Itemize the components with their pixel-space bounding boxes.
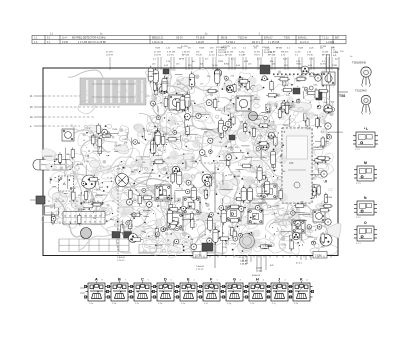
transistor TS6189X/B symbol bbox=[361, 67, 371, 87]
resistor R44 bbox=[313, 186, 316, 198]
trimmer/pad P5 bbox=[184, 114, 190, 120]
resistor R68 bbox=[98, 137, 101, 149]
svg-text:B.Rd-11: B.Rd-11 bbox=[298, 37, 307, 40]
trimmer/pad P38 bbox=[205, 181, 210, 186]
resistor R78 bbox=[249, 190, 252, 202]
bottom view of can D bbox=[153, 277, 177, 304]
resistor R10 bbox=[316, 117, 319, 129]
svg-text:A: A bbox=[95, 277, 98, 281]
resistor R15 bbox=[272, 157, 275, 169]
resistor R16 bbox=[259, 245, 271, 248]
resistor R62 bbox=[239, 76, 242, 88]
trimmer/pad P30 bbox=[219, 206, 224, 211]
connector M bbox=[354, 161, 377, 185]
TS6 node label on board edge bbox=[338, 92, 348, 98]
tick scale row bbox=[48, 201, 100, 203]
svg-text:TS28: TS28 bbox=[155, 48, 161, 50]
capacitor C19 bbox=[265, 179, 270, 197]
capacitor C9 bbox=[177, 169, 182, 187]
trimmer/pad P37 bbox=[296, 99, 300, 103]
transistor T4 on board bbox=[249, 112, 258, 121]
trimmer/pad P8 bbox=[127, 199, 133, 205]
svg-text:5: 5 bbox=[148, 280, 149, 282]
resistor R43 bbox=[228, 219, 240, 222]
transistor T12 on board bbox=[172, 166, 180, 174]
component value label and leader lines above board at x=285 bbox=[281, 51, 288, 70]
bottom view of can B bbox=[107, 277, 131, 304]
small modules at left board edge bbox=[30, 196, 59, 215]
resistor R75 bbox=[84, 189, 87, 201]
svg-text:55: 55 bbox=[89, 222, 91, 224]
svg-text:8: 8 bbox=[102, 280, 103, 282]
svg-text:0.05 AF: 0.05 AF bbox=[268, 50, 276, 53]
transistor T10 on board bbox=[324, 105, 332, 113]
vertical wire pair to transistor TS6 bbox=[327, 54, 330, 105]
component value label and leader lines above board at x=110 bbox=[106, 51, 113, 70]
capacitor C4 bbox=[167, 208, 172, 226]
trimmer/pad P18 bbox=[268, 134, 273, 139]
resistor R70 bbox=[235, 197, 247, 200]
svg-text:1x 25: 1x 25 bbox=[295, 51, 301, 53]
svg-text:TS26: TS26 bbox=[226, 87, 232, 89]
trimmer/pad P45 bbox=[151, 101, 156, 106]
capacitor C21 bbox=[155, 129, 160, 147]
trimmer/pad P34 bbox=[222, 125, 228, 131]
component value label and leader lines above board at x=200 bbox=[196, 51, 203, 70]
capacitor C2 bbox=[247, 185, 252, 203]
capacitor C17 bbox=[241, 185, 246, 203]
svg-text:B07: B07 bbox=[335, 37, 340, 40]
svg-text:TS30: TS30 bbox=[284, 37, 290, 40]
component value label and leader lines above board at x=258 bbox=[254, 51, 261, 70]
resistor R9 bbox=[246, 79, 249, 91]
svg-text:0.1AF: 0.1AF bbox=[70, 187, 76, 190]
dark modules bottom-left bbox=[112, 232, 132, 239]
extra components upper band bbox=[154, 73, 334, 133]
svg-text:0.01 AF: 0.01 AF bbox=[240, 260, 248, 263]
svg-text:2.2kΩ: 2.2kΩ bbox=[256, 268, 262, 270]
lower label row above board bbox=[152, 48, 339, 67]
capacitor C12 bbox=[257, 165, 262, 183]
resistor R53 bbox=[186, 125, 189, 137]
printed circuit board outline bbox=[43, 68, 338, 256]
svg-text:BF18: BF18 bbox=[179, 59, 185, 61]
resistor R42 bbox=[220, 127, 223, 139]
trimmer/pad P21 bbox=[199, 150, 205, 156]
component value label and leader lines above board at x=158 bbox=[154, 51, 161, 70]
capacitor C20 bbox=[148, 66, 153, 84]
trimmer/pad P17 bbox=[207, 238, 212, 243]
trimmer/pad P41 bbox=[181, 206, 186, 211]
resistor R7 bbox=[327, 72, 330, 84]
resistor R67 bbox=[233, 229, 236, 241]
label VH1 row bbox=[78, 195, 103, 197]
shield module dashed outline redraw bbox=[282, 128, 312, 203]
dark module M3 bbox=[316, 92, 322, 100]
svg-text:5%: 5% bbox=[188, 48, 191, 50]
resistor R13 bbox=[159, 185, 162, 197]
svg-text:1 4 e: 1 4 e bbox=[181, 303, 185, 305]
trimmer/pad P11 bbox=[295, 221, 301, 227]
trimmer/pad P25 bbox=[314, 74, 318, 78]
bottom edge pin stubs bbox=[191, 256, 331, 258]
IF transformer can K bbox=[292, 220, 305, 233]
svg-text:151-1: 151-1 bbox=[218, 55, 224, 57]
resistor R41 bbox=[214, 98, 217, 110]
svg-text:25: 25 bbox=[64, 216, 66, 218]
trimmer/pad P50 bbox=[186, 180, 191, 185]
dark module M6 bbox=[163, 69, 169, 74]
svg-text:O: O bbox=[364, 221, 367, 225]
resistor R47 bbox=[229, 205, 241, 208]
svg-text:BF180: BF180 bbox=[326, 197, 333, 199]
copper ground plane region bbox=[80, 78, 146, 105]
svg-text:5%: 5% bbox=[254, 48, 257, 50]
pad strip along top edge bbox=[273, 74, 335, 76]
IF transformer can E bbox=[248, 209, 263, 224]
trimmer/pad P9 bbox=[156, 116, 160, 120]
svg-text:9 215: 9 215 bbox=[62, 41, 69, 44]
svg-text:0.1 AF: 0.1 AF bbox=[239, 53, 246, 56]
trimmer/pad P4 bbox=[156, 232, 160, 236]
trimmer/pad P29 bbox=[255, 205, 260, 210]
svg-text:D: D bbox=[231, 212, 234, 217]
transistor T2 on board bbox=[116, 174, 129, 187]
resistor R38 bbox=[218, 237, 230, 240]
resistor R17 bbox=[290, 239, 293, 251]
svg-text:125: 125 bbox=[89, 216, 92, 218]
resistor R69 bbox=[88, 178, 100, 181]
svg-text:TS28: TS28 bbox=[199, 48, 205, 50]
resistor R57 bbox=[294, 204, 306, 207]
trimmer/pad P51 bbox=[328, 135, 332, 139]
transistor T13 on board bbox=[292, 232, 300, 240]
trimmer/pad P31 bbox=[225, 76, 229, 80]
svg-text:TS30: TS30 bbox=[296, 64, 302, 66]
resistor R58 bbox=[97, 123, 100, 135]
resistor R28 bbox=[71, 148, 74, 160]
resistor R80 bbox=[257, 142, 269, 145]
bottom view of can A bbox=[84, 277, 108, 304]
svg-text:5: 5 bbox=[217, 280, 218, 282]
below-board leader group 2 bbox=[240, 256, 274, 273]
dark module M2 bbox=[293, 88, 300, 94]
resistor R20 bbox=[318, 209, 330, 212]
shielded can at (62,129) bbox=[62, 129, 74, 141]
capacitor C22 bbox=[221, 207, 226, 225]
svg-text:1 4 c: 1 4 c bbox=[135, 303, 139, 305]
svg-text:4: 4 bbox=[263, 280, 264, 282]
legend column at x=331 bbox=[331, 47, 339, 57]
trimmer/pad P24 bbox=[233, 237, 238, 242]
svg-text:B.Rd-08: B.Rd-08 bbox=[252, 275, 261, 277]
resistor R79 bbox=[129, 219, 132, 231]
resistor R52 bbox=[162, 134, 165, 146]
svg-text:1k 1W: 1k 1W bbox=[322, 51, 329, 53]
resistor R83 bbox=[72, 190, 75, 202]
svg-text:G: G bbox=[233, 277, 236, 281]
title block tick labels bbox=[50, 33, 261, 35]
svg-text:H: H bbox=[189, 204, 192, 209]
legend column at x=216 bbox=[216, 47, 227, 57]
svg-text:L74 78: L74 78 bbox=[154, 54, 161, 56]
IF transformer can H bbox=[183, 197, 200, 214]
resistor R31 bbox=[130, 213, 142, 216]
resistor R35 bbox=[92, 134, 95, 146]
svg-text:T526: T526 bbox=[112, 129, 118, 131]
trimmer/pad P36 bbox=[132, 213, 136, 217]
edge connector ladder grid B bbox=[139, 245, 216, 253]
svg-text:BF 185: BF 185 bbox=[322, 54, 330, 56]
resistor R82 bbox=[58, 152, 61, 164]
svg-text:4x 2 1-0: 4x 2 1-0 bbox=[300, 41, 309, 44]
resistor R72 bbox=[51, 213, 54, 225]
resistor R81 bbox=[285, 103, 288, 115]
svg-text:5-25p: 5-25p bbox=[215, 110, 221, 112]
transistor TS1234/5 symbol bbox=[361, 95, 371, 114]
svg-text:B5 FREQ.DETECTOR 4.5 MHz: B5 FREQ.DETECTOR 4.5 MHz bbox=[72, 37, 106, 40]
transistor T3 on board bbox=[202, 174, 212, 184]
resistor R73 bbox=[280, 106, 292, 109]
resistor R74 bbox=[238, 80, 250, 83]
trimmer/pad P1 bbox=[262, 76, 267, 81]
svg-text:5-25p: 5-25p bbox=[239, 51, 245, 53]
resistor R55 bbox=[129, 188, 132, 200]
resistor R77 bbox=[91, 203, 103, 206]
svg-text:5.2 Rd 1: 5.2 Rd 1 bbox=[226, 41, 236, 44]
svg-text:T526: T526 bbox=[193, 209, 199, 211]
capacitor C14 bbox=[219, 118, 224, 136]
svg-text:7: 7 bbox=[125, 280, 126, 282]
svg-text:TS6189X/B: TS6189X/B bbox=[352, 61, 366, 65]
component value label and leader lines above board at x=186 bbox=[182, 51, 192, 70]
component value label and leader lines above board at x=171 bbox=[167, 51, 176, 70]
svg-text:TS 28 B: TS 28 B bbox=[196, 37, 205, 40]
svg-text:TS 30: TS 30 bbox=[307, 54, 314, 56]
svg-text:0.1 5%: 0.1 5% bbox=[167, 54, 174, 56]
IF transformer can F bbox=[167, 213, 183, 229]
trimmer/pad P43 bbox=[209, 150, 213, 154]
trimmer/pad P14 bbox=[174, 239, 179, 244]
shielded can at (236,96) bbox=[236, 96, 251, 111]
bottom row left stub wires bbox=[80, 288, 85, 293]
trimmer/pad P26 bbox=[206, 100, 212, 106]
svg-text:G5 14: G5 14 bbox=[176, 37, 183, 40]
svg-text:1 4 d: 1 4 d bbox=[158, 303, 162, 305]
svg-text:2x 178: 2x 178 bbox=[106, 51, 113, 53]
resistor R45 bbox=[313, 159, 325, 162]
resistor R59 bbox=[156, 130, 159, 142]
resistor R61 bbox=[191, 218, 194, 230]
svg-text:BEELD 21: BEELD 21 bbox=[152, 37, 164, 40]
resistor R29 bbox=[121, 223, 124, 235]
svg-text:T.Rd-34: T.Rd-34 bbox=[117, 257, 125, 259]
resistor R71 bbox=[131, 238, 143, 241]
svg-text:6: 6 bbox=[307, 280, 308, 282]
connector L bbox=[353, 127, 378, 151]
svg-text:B5 06: B5 06 bbox=[221, 37, 228, 40]
dark module M1 bbox=[260, 65, 270, 74]
resistor R33 bbox=[227, 156, 230, 168]
resistor R39 bbox=[266, 94, 278, 97]
svg-text:1 4 g: 1 4 g bbox=[227, 303, 231, 305]
lead speck marks bbox=[54, 76, 334, 253]
svg-text:5: 5 bbox=[64, 222, 65, 224]
resistor R2 bbox=[324, 193, 327, 205]
svg-text:25: 25 bbox=[74, 222, 76, 224]
svg-text:1 4 h: 1 4 h bbox=[250, 303, 254, 305]
trimmer/pad P10 bbox=[256, 147, 260, 151]
capacitor C3 bbox=[153, 67, 158, 85]
title block row 2 text bbox=[34, 41, 335, 44]
resistor R4 bbox=[142, 196, 154, 199]
shield module dashed outline bbox=[282, 128, 312, 203]
svg-text:D: D bbox=[164, 277, 167, 281]
svg-text:TS 27: TS 27 bbox=[254, 54, 261, 56]
resistor R85 bbox=[168, 208, 180, 211]
dark module M4 bbox=[202, 243, 213, 251]
svg-text:J: J bbox=[278, 277, 280, 281]
capacitor C11 bbox=[151, 138, 156, 156]
component value label and leader lines above board at x=229 bbox=[225, 51, 235, 70]
component value label and leader lines above board at x=299 bbox=[295, 51, 302, 70]
trimmer/pad P3 bbox=[208, 138, 213, 143]
resistor R3 bbox=[78, 213, 81, 225]
svg-text:1k 5%: 1k 5% bbox=[254, 51, 260, 53]
svg-text:M: M bbox=[364, 161, 367, 165]
trimmer/pad P27 bbox=[239, 206, 244, 211]
svg-text:1 4 f: 1 4 f bbox=[204, 303, 208, 305]
left leader line 20 at y=107 bbox=[30, 107, 120, 109]
svg-text:BF180: BF180 bbox=[77, 164, 84, 166]
svg-text:BF180: BF180 bbox=[267, 136, 274, 138]
trimmer/pad P6 bbox=[226, 154, 232, 160]
trimmer/pad P13 bbox=[161, 227, 166, 232]
svg-text:39k 5%: 39k 5% bbox=[281, 51, 288, 53]
below-board leader group 1 bbox=[196, 256, 215, 272]
svg-text:2: 2 bbox=[285, 280, 286, 282]
svg-text:BF 184: BF 184 bbox=[268, 54, 276, 56]
resistor R14 bbox=[244, 122, 247, 134]
resistor R65 bbox=[208, 176, 211, 188]
below-board label bottom-left bbox=[117, 257, 125, 262]
svg-text:TS28: TS28 bbox=[298, 48, 304, 50]
svg-text:L74 78: L74 78 bbox=[106, 54, 113, 56]
IF transformer can J bbox=[262, 184, 277, 199]
shielded can at (322,72) bbox=[322, 72, 335, 85]
resistor R34 bbox=[317, 89, 329, 92]
capacitor C6 bbox=[208, 215, 213, 233]
svg-text:BF180: BF180 bbox=[276, 48, 283, 50]
svg-text:1 4 b: 1 4 b bbox=[112, 303, 116, 305]
resistor R19 bbox=[164, 96, 167, 108]
resistor R11 bbox=[295, 77, 307, 80]
resistor R48 bbox=[281, 88, 293, 91]
capacitor C15 bbox=[162, 76, 167, 94]
svg-text:1k 5%: 1k 5% bbox=[212, 65, 218, 67]
boxed label CBL right bbox=[313, 252, 327, 259]
component halo shading bbox=[68, 72, 333, 248]
transistor T7 on board bbox=[81, 228, 92, 239]
trimmer/pad P52 bbox=[191, 244, 197, 250]
resistor R6 bbox=[171, 172, 174, 184]
trimmer/pad P33 bbox=[146, 202, 152, 208]
resistor R64 bbox=[138, 194, 141, 206]
resistor R25 bbox=[286, 100, 289, 112]
trimmer/pad P2 bbox=[51, 216, 56, 221]
svg-text:K: K bbox=[300, 277, 303, 281]
svg-text:65: 65 bbox=[94, 222, 96, 224]
copper traces bbox=[42, 68, 341, 258]
svg-text:2: 2 bbox=[194, 280, 195, 282]
resistor R49 bbox=[241, 164, 253, 167]
IF transformer can D bbox=[226, 206, 241, 221]
transistor T16 on board bbox=[226, 85, 234, 93]
legend column at x=262 bbox=[262, 47, 273, 57]
svg-text:E: E bbox=[253, 215, 256, 220]
svg-text:165: 165 bbox=[99, 216, 102, 218]
trimmer/pad P20 bbox=[133, 140, 138, 145]
resistor R63 bbox=[176, 101, 179, 113]
below-board leader group 3 bbox=[296, 256, 311, 265]
vertical shield wire 2 bbox=[222, 198, 224, 256]
bottom view of can G bbox=[222, 277, 246, 304]
dashed vertical wire at x=118 bbox=[117, 165, 119, 254]
resistor R27 bbox=[100, 134, 112, 137]
title block row 1 text bbox=[34, 37, 340, 40]
component value label and leader lines above board at x=272 bbox=[268, 50, 276, 70]
svg-text:B.Rd 17: B.Rd 17 bbox=[264, 37, 273, 40]
resistor R21 bbox=[278, 78, 290, 81]
transistor T5 on board bbox=[240, 234, 255, 249]
component value label and leader lines above board at x=213 bbox=[209, 51, 216, 70]
bottom view of can E bbox=[176, 277, 200, 304]
resistor R54 bbox=[153, 160, 165, 163]
shielded can at (169,95) bbox=[169, 95, 184, 110]
resistor R36 bbox=[167, 221, 179, 224]
resistor R84 bbox=[166, 138, 178, 141]
svg-text:1.2k 5%: 1.2k 5% bbox=[182, 51, 190, 53]
resistor R66 bbox=[155, 227, 158, 239]
svg-text:1 x 25 218: 1 x 25 218 bbox=[268, 41, 280, 44]
svg-text:* L: * L bbox=[364, 127, 368, 131]
trimmer/pad P35 bbox=[173, 130, 177, 134]
svg-text:3: 3 bbox=[240, 280, 241, 282]
resistor R5 bbox=[278, 107, 281, 119]
svg-text:T540: T540 bbox=[265, 244, 272, 248]
svg-text:1 2 3 R5 218 4.5 1x 25 BF: 1 2 3 R5 218 4.5 1x 25 BF bbox=[78, 41, 106, 44]
trimmer/pad P46 bbox=[239, 233, 243, 237]
upper label row above board bbox=[181, 46, 353, 58]
svg-text:BF 180: BF 180 bbox=[182, 54, 190, 56]
svg-text:2.2k 1W: 2.2k 1W bbox=[225, 51, 234, 53]
svg-text:75: 75 bbox=[99, 222, 101, 224]
resistor R60 bbox=[279, 188, 282, 200]
left leader line 2a at y=117 bbox=[30, 117, 95, 119]
dashed wire across middle bbox=[150, 162, 214, 164]
interconnect wires bbox=[44, 75, 343, 249]
resistor R40 bbox=[306, 91, 318, 94]
title block table frame bbox=[32, 35, 346, 44]
fuse/jumper pill component at left edge bbox=[33, 160, 73, 171]
svg-text:TS1234/5: TS1234/5 bbox=[355, 89, 367, 93]
trimmer/pad P44 bbox=[186, 189, 190, 193]
component value label and leader lines above board at x=243 bbox=[239, 51, 246, 70]
svg-text:2 CBL: 2 CBL bbox=[315, 254, 323, 258]
trimmer/pad P47 bbox=[312, 241, 316, 245]
capacitor C16 bbox=[215, 68, 220, 86]
trimmer/pad P39 bbox=[126, 221, 130, 225]
